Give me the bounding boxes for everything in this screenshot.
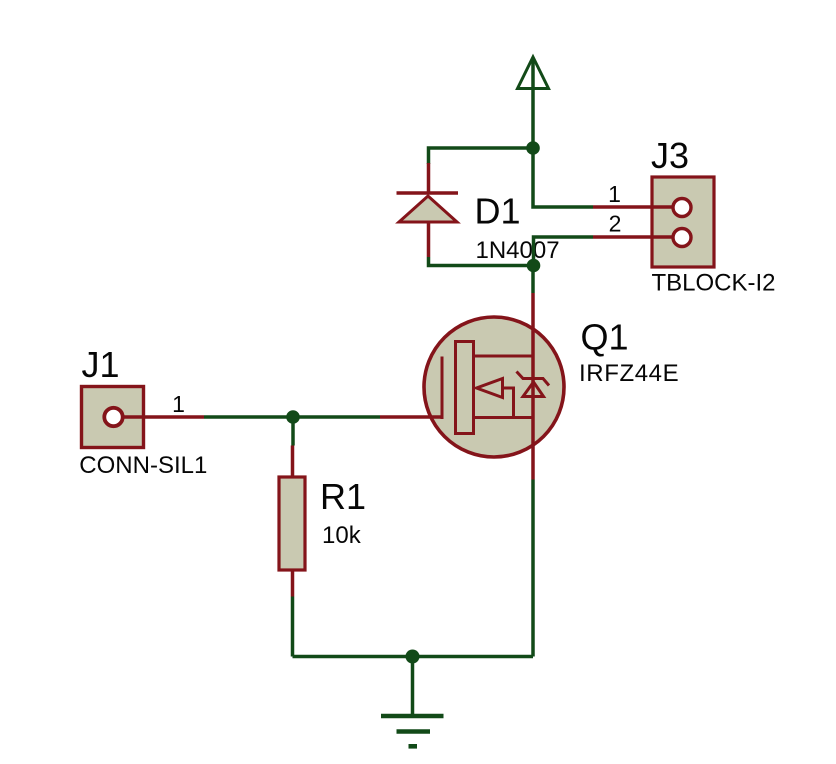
- wire: node C down to R1 (green): [291, 417, 295, 446]
- transistor Q1 body circle: [424, 317, 564, 457]
- svg-text:D1: D1: [475, 191, 521, 232]
- wire: J1 pin 1 lead (red): [124, 415, 204, 419]
- wire: node A left and down to diode cathode: [429, 148, 534, 164]
- wire: node A down then right toward J3 pin 1: [533, 148, 593, 207]
- node D junction dot (ground tap): [406, 650, 420, 664]
- wire: bottom ground rail: [293, 655, 534, 659]
- wire: Q1 source down to bottom rail (green): [531, 480, 535, 657]
- power symbol (VCC arrow): [518, 57, 549, 89]
- terminal block J3: [652, 177, 714, 267]
- connector J1: [82, 387, 144, 448]
- wire: node B up then right toward J3 pin 2: [534, 237, 594, 266]
- svg-text:1: 1: [172, 391, 185, 417]
- svg-text:Q1: Q1: [581, 317, 629, 358]
- svg-text:J3: J3: [651, 135, 689, 176]
- wire: ground stem: [411, 657, 415, 717]
- wire: Q1 drain to source vertical (red, through body): [531, 293, 535, 480]
- diode D1 symbol: [397, 193, 459, 222]
- wire: J1 pin to node C (green): [204, 415, 293, 419]
- wire: R1 to bottom rail (green): [291, 597, 295, 657]
- svg-text:10k: 10k: [322, 522, 362, 549]
- wire: diode D1 anode lead (red): [427, 222, 431, 257]
- resistor R1 body: [279, 477, 305, 570]
- wire: R1 top lead (red): [291, 446, 295, 478]
- wire: diode D1 cathode lead (red): [427, 163, 431, 193]
- svg-text:R1: R1: [320, 476, 366, 517]
- wire: R1 bottom lead (red): [291, 570, 295, 597]
- node A junction dot (top): [526, 141, 540, 155]
- svg-text:IRFZ44E: IRFZ44E: [579, 360, 679, 387]
- svg-text:2: 2: [609, 211, 622, 237]
- wire: node B down to Q1 drain (green): [531, 266, 535, 294]
- wire: node C to Q1 gate (green): [293, 415, 380, 419]
- svg-text:J1: J1: [82, 344, 120, 385]
- node B junction dot (above Q1 drain): [527, 259, 541, 273]
- wire: Q1 gate lead (red): [380, 415, 442, 419]
- wire: J3 pin 2 lead (red): [593, 235, 674, 239]
- transistor Q1 internal symbol: [442, 342, 549, 434]
- svg-text:1N4007: 1N4007: [476, 237, 560, 264]
- wire: J3 pin 1 lead (red): [593, 205, 674, 209]
- node C junction dot (gate / R1): [286, 410, 300, 424]
- svg-text:CONN-SIL1: CONN-SIL1: [79, 452, 207, 479]
- wire: diode anode down and right to node B: [429, 257, 534, 266]
- svg-text:TBLOCK-I2: TBLOCK-I2: [652, 270, 776, 297]
- svg-text:1: 1: [608, 181, 621, 207]
- wire: power arrow stem down to node A: [531, 59, 535, 148]
- ground symbol: [381, 716, 444, 746]
